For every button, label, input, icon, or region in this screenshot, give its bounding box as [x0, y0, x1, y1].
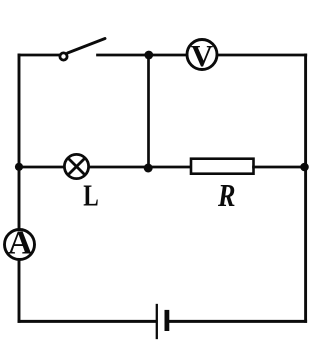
wire right rail [304, 55, 307, 321]
switch S1 pivot circle [60, 53, 67, 60]
junction node right (middle wire meets right rail) [300, 163, 309, 172]
wire bottom-right (battery to bottom-right corner) [170, 320, 306, 323]
wire middle (lamp to resistor) [89, 166, 191, 169]
resistor R body [191, 159, 254, 174]
wire middle-right (resistor to right rail) [254, 166, 306, 169]
switch S1 lever (open blade) [68, 39, 106, 54]
wire left rail upper (top corner down to ammeter) [18, 55, 21, 229]
lamp L cross stroke 1 [68, 158, 85, 175]
junction node mid (vertical branch meets middle wire) [144, 164, 153, 173]
lamp L circle [64, 154, 88, 178]
battery BT1 long plate (positive) [156, 305, 158, 338]
junction node left (middle wire meets left rail) [15, 163, 23, 171]
svg-text:V: V [191, 38, 214, 73]
wire top-right (voltmeter to top-right corner) [218, 54, 306, 57]
voltmeter U1 circle [187, 40, 217, 70]
wire bottom-left (to battery) [19, 320, 155, 323]
wire middle-left (left rail to lamp) [19, 166, 64, 169]
battery BT1 short thick plate (negative) [164, 312, 169, 328]
svg-text:L: L [83, 177, 99, 212]
wire top-middle (switch contact to voltmeter) [98, 54, 186, 57]
wire top-left horizontal (from top-left corner to switch) [19, 54, 59, 57]
wire left rail lower (ammeter to bottom corner) [18, 260, 21, 321]
junction node at top of lamp-branch / voltmeter branch [144, 51, 153, 60]
ammeter U2 circle [5, 230, 35, 260]
lamp L cross stroke 2 [68, 158, 85, 175]
wire vertical branch from top junction down to middle wire [147, 55, 150, 168]
svg-text:R: R [217, 177, 235, 213]
svg-text:A: A [8, 224, 33, 261]
